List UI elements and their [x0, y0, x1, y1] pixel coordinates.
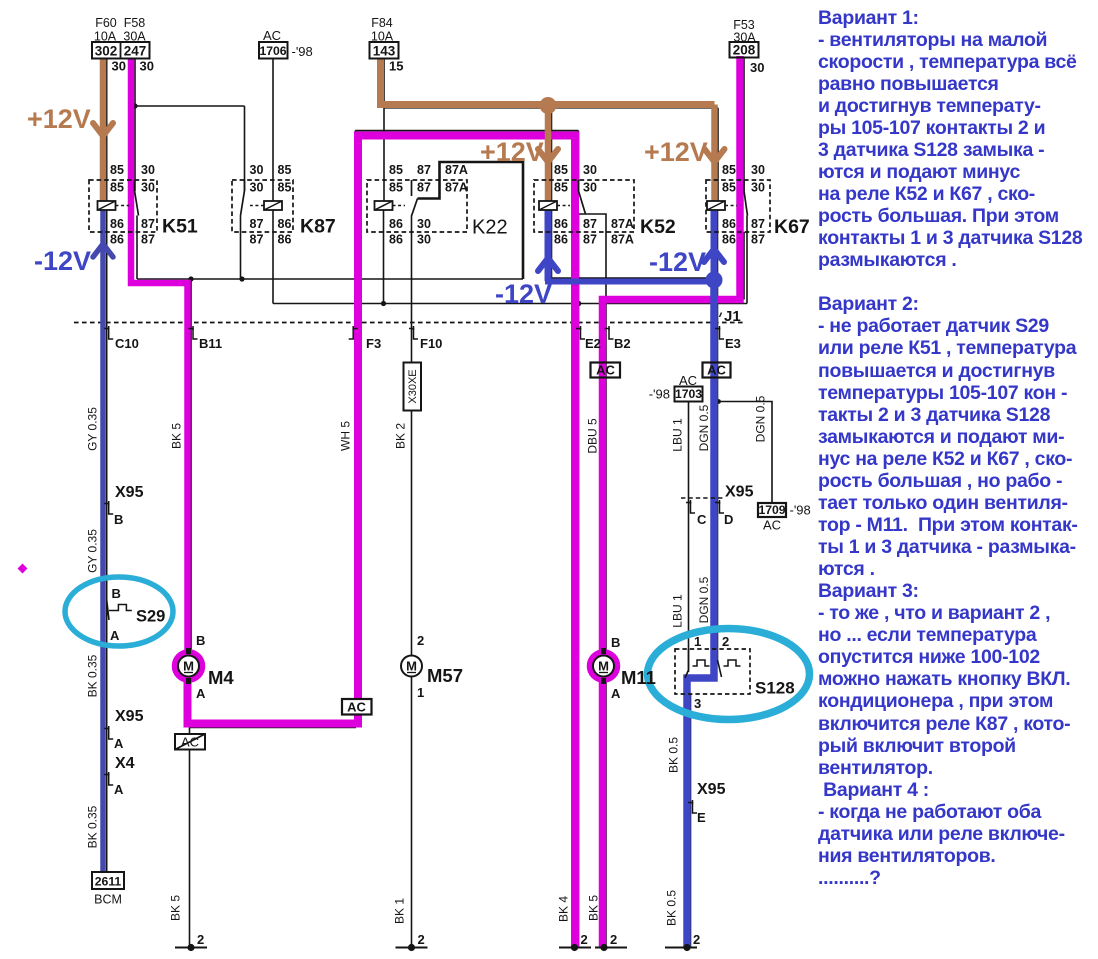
svg-text:BK 0.35: BK 0.35	[86, 654, 100, 697]
svg-text:E: E	[697, 810, 706, 825]
svg-text:M: M	[183, 659, 194, 674]
svg-text:87: 87	[751, 233, 765, 247]
arrow +12V right	[705, 149, 725, 162]
box AC 1703	[649, 373, 703, 402]
svg-text:86: 86	[110, 217, 124, 231]
svg-text:B: B	[114, 512, 123, 527]
svg-text:BK 0.5: BK 0.5	[665, 890, 679, 926]
switch S128 thermo sensor	[675, 634, 795, 711]
svg-text:AC: AC	[679, 373, 697, 388]
svg-text:30: 30	[751, 181, 765, 195]
box AC on E3 wire	[703, 363, 731, 378]
svg-text:GY 0.35: GY 0.35	[86, 407, 100, 451]
svg-text:+12V: +12V	[480, 137, 544, 167]
svg-text:10A: 10A	[94, 30, 117, 44]
arrow -12V right	[704, 249, 724, 262]
switch S29 thermo sensor	[107, 586, 166, 643]
svg-text:143: 143	[373, 44, 396, 59]
svg-text:86: 86	[389, 217, 403, 231]
svg-text:30A: 30A	[733, 31, 756, 45]
svg-text:WH 5: WH 5	[339, 421, 353, 451]
svg-text:85: 85	[722, 163, 736, 177]
svg-text:X95: X95	[725, 484, 754, 501]
svg-text:F10: F10	[420, 336, 442, 351]
svg-text:1706: 1706	[259, 44, 286, 58]
svg-text:BK 5: BK 5	[170, 423, 184, 449]
svg-text:86: 86	[389, 233, 403, 247]
wire base 302 to K51 coil	[106, 58, 108, 201]
svg-text:A: A	[110, 628, 120, 643]
svg-text:B: B	[112, 586, 121, 601]
arrow -12V middle	[538, 258, 558, 271]
svg-text:A: A	[114, 782, 124, 797]
ellipse highlight S128	[648, 629, 810, 720]
svg-text:87: 87	[583, 217, 597, 231]
svg-text:F60: F60	[95, 16, 117, 30]
svg-text:M: M	[598, 659, 609, 674]
svg-text:30: 30	[583, 181, 597, 195]
wire base WH5 riser	[354, 131, 356, 728]
svg-text:-'98: -'98	[292, 44, 313, 59]
svg-text:30: 30	[141, 181, 155, 195]
wire +12V brown from fuse 302 to K51 coil	[100, 58, 107, 201]
svg-text:30: 30	[417, 217, 431, 231]
motor M57 fan	[401, 633, 463, 700]
ellipse highlight S29	[65, 577, 173, 646]
wire K87 feed from fuse row	[135, 105, 245, 107]
wire 143 to K22 coil	[383, 58, 385, 201]
svg-text:-'98: -'98	[649, 387, 670, 402]
svg-text:-12V: -12V	[495, 279, 552, 309]
svg-text:AC: AC	[707, 363, 726, 378]
svg-text:87: 87	[250, 233, 264, 247]
svg-text:85: 85	[554, 181, 568, 195]
svg-text:DGN 0.5: DGN 0.5	[754, 395, 768, 442]
svg-text:C: C	[697, 512, 707, 527]
svg-text:BCM: BCM	[94, 893, 122, 907]
svg-text:-'98: -'98	[790, 503, 811, 518]
svg-text:DBU 5: DBU 5	[586, 418, 600, 454]
svg-text:85: 85	[554, 163, 568, 177]
svg-text:X95: X95	[115, 708, 144, 725]
svg-text:1703: 1703	[675, 387, 702, 401]
svg-text:87A: 87A	[611, 217, 634, 231]
wire base M4 jumper bottom	[190, 727, 357, 729]
wire K87 pin30 down into relay	[244, 106, 246, 191]
svg-text:K87: K87	[300, 216, 336, 238]
svg-text:86: 86	[722, 217, 736, 231]
wire navy K51 pin86 down to BCM	[100, 210, 106, 872]
wire brown drop to K67 coil	[711, 105, 718, 202]
wire base K67 coil feed	[717, 108, 719, 201]
svg-text:X4: X4	[115, 755, 135, 772]
svg-text:K52: K52	[640, 216, 676, 238]
svg-text:-12V: -12V	[34, 246, 91, 276]
svg-text:30: 30	[140, 59, 154, 74]
svg-text:C10: C10	[115, 336, 139, 351]
node brown junction	[540, 97, 557, 114]
pink diamond marker	[18, 564, 28, 574]
svg-text:BK 4: BK 4	[557, 896, 571, 922]
wire base fuse row brown feed	[384, 107, 718, 109]
svg-text:LBU 1: LBU 1	[671, 418, 685, 452]
motor M4 fan	[175, 633, 234, 701]
annotation text column	[818, 7, 1098, 890]
wire net B horizontal K87-86 to K67-87	[273, 303, 747, 305]
node junction B11 on net A	[188, 276, 193, 281]
svg-text:86: 86	[722, 233, 736, 247]
svg-text:B: B	[611, 635, 620, 650]
svg-text:30: 30	[112, 59, 126, 74]
fuse F84 box 143	[370, 16, 404, 74]
wire base 208 column lower	[743, 232, 745, 300]
svg-text:1: 1	[417, 685, 424, 700]
svg-text:2: 2	[722, 634, 729, 649]
svg-text:E2: E2	[585, 336, 601, 351]
relay K87	[232, 163, 336, 247]
svg-text:BK 2: BK 2	[394, 423, 408, 449]
wire K87 pin87 down	[240, 216, 242, 280]
svg-text:X30XE: X30XE	[407, 369, 419, 403]
wire blue E3 down to S128 pin2	[687, 280, 714, 947]
svg-text:87: 87	[583, 233, 597, 247]
svg-text:X95: X95	[115, 484, 144, 501]
node junction at 247 column	[132, 103, 137, 108]
motor M11 fan	[590, 635, 656, 701]
svg-text:30A: 30A	[123, 30, 146, 44]
svg-text:87A: 87A	[445, 163, 468, 177]
box AC crossed out on M4 ground wire	[175, 734, 205, 750]
svg-text:A: A	[611, 686, 621, 701]
wire magenta fuse 208 through K67 to B2 and M11	[603, 56, 741, 655]
svg-text:30: 30	[250, 181, 264, 195]
svg-text:30: 30	[750, 60, 764, 75]
wire magenta below M11 to ground	[599, 678, 607, 947]
svg-text:F58: F58	[124, 16, 146, 30]
svg-text:87: 87	[417, 181, 431, 195]
svg-text:87: 87	[751, 217, 765, 231]
connector X30XE box	[404, 363, 422, 411]
svg-text:E3: E3	[725, 336, 741, 351]
wire base 247 to K51 pin30	[134, 58, 136, 191]
node junction K22-86 on net B	[381, 301, 386, 306]
svg-text:302: 302	[95, 44, 118, 59]
node blue junction	[706, 272, 723, 289]
relay K51	[89, 163, 198, 247]
wire base 208 to K67 pin30	[743, 58, 745, 191]
svg-text:2: 2	[197, 932, 204, 947]
svg-text:30: 30	[141, 163, 155, 177]
svg-text:85: 85	[389, 181, 403, 195]
svg-text:S29: S29	[136, 608, 165, 626]
svg-text:AC: AC	[263, 28, 281, 43]
ground M57 circuit	[396, 947, 428, 949]
wire B2 column down to M11	[605, 304, 607, 656]
svg-text:D: D	[724, 512, 733, 527]
svg-text:BK 5: BK 5	[169, 895, 183, 921]
svg-text:A: A	[114, 736, 124, 751]
svg-text:30: 30	[583, 163, 597, 177]
svg-text:10A: 10A	[371, 30, 394, 44]
ground M11 circuit	[595, 947, 627, 949]
svg-text:BK 5: BK 5	[587, 895, 601, 921]
wire K87 pin86 down to net B	[272, 210, 274, 304]
wire below M57 to ground	[411, 677, 413, 947]
svg-text:M: M	[406, 659, 417, 674]
svg-text:85: 85	[110, 181, 124, 195]
svg-text:2: 2	[417, 633, 424, 648]
svg-text:M57: M57	[427, 665, 463, 686]
bulkhead dashed separator	[74, 322, 746, 324]
svg-text:DGN 0.5: DGN 0.5	[697, 576, 711, 623]
wire base top jumper to K52	[355, 130, 578, 132]
svg-text:K67: K67	[774, 216, 810, 238]
svg-text:87: 87	[141, 233, 155, 247]
wire base K52 pin86 down and -12V rail	[552, 210, 718, 278]
wire brown drop to K52 coil	[545, 105, 552, 202]
connector C10	[104, 329, 113, 340]
svg-text:M11: M11	[621, 667, 656, 688]
wire B11 column down to M4	[190, 279, 192, 655]
connector F3	[349, 329, 358, 340]
arrow -12V left	[93, 244, 113, 257]
svg-text:3: 3	[694, 696, 701, 711]
svg-text:85: 85	[389, 163, 403, 177]
ground M4 circuit	[175, 947, 207, 949]
svg-text:F84: F84	[371, 16, 393, 30]
svg-text:15: 15	[389, 59, 403, 74]
wire base K67 pin86 down through E3	[717, 210, 719, 660]
connector F10	[409, 329, 418, 340]
wire blue -12V rail K52 K67 coils	[545, 210, 552, 281]
svg-text:2611: 2611	[95, 875, 122, 889]
svg-text:BK 0.35: BK 0.35	[86, 805, 100, 848]
wire X30XE to M57	[411, 410, 413, 655]
svg-text:LBU 1: LBU 1	[671, 594, 685, 628]
svg-text:AC: AC	[596, 363, 615, 378]
svg-text:M4: M4	[208, 667, 234, 688]
wire magenta fuse 247 through K51 to B11 and M4	[131, 58, 188, 655]
svg-text:85: 85	[278, 163, 292, 177]
svg-text:86: 86	[278, 217, 292, 231]
arrow +12V middle	[538, 149, 558, 162]
connector E2	[576, 329, 585, 340]
svg-text:F3: F3	[366, 336, 381, 351]
box AC on B2 wire	[591, 363, 621, 378]
node junction K87-87 on net A	[239, 276, 244, 281]
svg-text:J1: J1	[724, 308, 741, 325]
fuse F53 box 208	[730, 18, 765, 75]
svg-text:1709: 1709	[758, 503, 785, 517]
wire below M4 to ground	[189, 678, 191, 947]
wire K52 pin87 down through E2 to ground	[578, 131, 580, 191]
wire LBU1 1703 to S128 pin1	[688, 402, 690, 673]
svg-text:87A: 87A	[445, 181, 468, 195]
wire base K51 pin86 down to BCM column	[106, 210, 108, 873]
svg-text:B11: B11	[199, 336, 222, 351]
svg-text:2: 2	[581, 932, 588, 947]
svg-text:86: 86	[278, 233, 292, 247]
arrow +12V left	[93, 123, 113, 136]
svg-text:+12V: +12V	[644, 137, 708, 167]
svg-text:86: 86	[554, 233, 568, 247]
svg-text:87: 87	[141, 217, 155, 231]
svg-text:87: 87	[417, 163, 431, 177]
wire K22 pin86 down to net B	[383, 210, 385, 304]
node junction DGN branch	[716, 399, 721, 404]
svg-text:85: 85	[110, 163, 124, 177]
relay K52	[534, 163, 676, 247]
svg-text:-12V: -12V	[649, 247, 706, 277]
svg-text:87: 87	[250, 217, 264, 231]
svg-text:X95: X95	[697, 781, 726, 798]
svg-text:2: 2	[610, 932, 617, 947]
ground S128 circuit	[665, 947, 697, 949]
box AC on WH5 riser	[342, 699, 372, 715]
svg-text:B: B	[196, 633, 205, 648]
connector B2	[605, 329, 614, 340]
svg-text:DGN 0.5: DGN 0.5	[697, 404, 711, 451]
svg-text:30: 30	[751, 163, 765, 177]
svg-text:85: 85	[722, 181, 736, 195]
svg-text:2: 2	[693, 932, 700, 947]
wire DGN branch to 1709	[718, 402, 773, 504]
svg-text:AC: AC	[763, 518, 781, 533]
svg-text:30: 30	[250, 163, 264, 177]
svg-text:GY 0.35: GY 0.35	[86, 529, 100, 573]
svg-text:BK 1: BK 1	[393, 898, 407, 924]
wire K52 87A branch	[579, 214, 607, 304]
svg-text:S128: S128	[755, 679, 795, 698]
wire K51 pin87 down	[136, 216, 138, 280]
wire +12V brown from fuse 143 feed rail	[381, 58, 715, 105]
svg-text:B2: B2	[614, 336, 631, 351]
ground DBU wire	[559, 947, 591, 949]
wire below M11 to ground	[605, 678, 607, 947]
svg-text:87A: 87A	[611, 233, 634, 247]
relay K67	[706, 163, 810, 247]
svg-text:86: 86	[110, 233, 124, 247]
wire base K52 coil feed	[551, 108, 553, 201]
svg-text:AC: AC	[347, 700, 366, 715]
svg-text:2: 2	[418, 932, 425, 947]
wire blue K67 coil drop	[711, 210, 718, 280]
svg-text:247: 247	[124, 44, 147, 59]
wire K22 pin30 down through F10 to X30XE	[411, 216, 413, 364]
node junction K52-87 on net B	[576, 301, 582, 307]
svg-text:+12V: +12V	[27, 104, 91, 134]
box 2611 BCM	[92, 872, 124, 907]
svg-text:K51: K51	[162, 216, 198, 238]
wire 1706 to K87 coil	[272, 58, 274, 201]
connector B11	[189, 329, 198, 340]
connector X95 pins C D	[681, 484, 754, 528]
connector E3 J1	[715, 329, 724, 340]
fuse box AC 1706	[259, 28, 313, 59]
wire magenta M4 to F3 riser to K52 pin30	[188, 136, 576, 948]
wire K67 pin87 down to net B	[746, 216, 748, 304]
wire net A horizontal K51-87 to K22-87A	[137, 278, 523, 280]
wire base S128 pin3 to ground	[690, 694, 692, 947]
relay K22	[367, 163, 508, 247]
svg-text:208: 208	[733, 43, 756, 58]
fuse F60 F58 box 302 247	[92, 16, 154, 74]
svg-text:30: 30	[417, 233, 431, 247]
connector X95 pin E	[688, 781, 726, 825]
svg-text:A: A	[196, 686, 206, 701]
svg-text:K22: K22	[472, 217, 508, 239]
svg-text:86: 86	[554, 217, 568, 231]
wire K22 87A riser path	[418, 162, 524, 279]
svg-text:BK 0.5: BK 0.5	[667, 737, 681, 773]
box AC 1709	[758, 503, 811, 533]
svg-text:85: 85	[278, 181, 292, 195]
